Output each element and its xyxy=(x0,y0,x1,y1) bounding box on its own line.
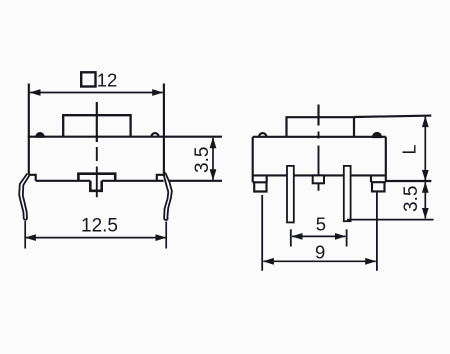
pin 2 (right view) xyxy=(344,166,351,221)
body bottom line (left view, extends to 3.5 dim) xyxy=(36,180,222,182)
extension tick right of 5 dimension xyxy=(346,229,348,246)
dimension line 9 xyxy=(263,260,375,262)
dimension line (square)12 xyxy=(30,92,163,94)
body top line (left view, extends to 3.5 dim) xyxy=(28,136,222,138)
left view: left extension / body left edge xyxy=(28,84,30,175)
boss stem (left view) xyxy=(90,181,101,191)
dimension line 5 xyxy=(292,235,345,237)
left view: right extension / body right edge xyxy=(163,84,165,174)
center line (left view) dashes xyxy=(96,147,98,197)
svg-text:3.5: 3.5 xyxy=(192,147,213,173)
extension line left of 9 dimension xyxy=(261,195,263,271)
body top line (right view) xyxy=(253,136,386,138)
right mounting foot (right view) xyxy=(371,175,386,191)
body left edge (right view) xyxy=(252,137,254,183)
center line (left view) solid upper xyxy=(96,102,98,142)
left bent leg (left view) xyxy=(19,174,29,220)
square symbol of (square)12 label xyxy=(81,72,95,86)
svg-text:9: 9 xyxy=(315,242,325,263)
bottom extension line (pin bottoms to 3.5 dim) xyxy=(347,219,434,221)
cap-top extension line to L dimension xyxy=(354,116,431,117)
left mounting foot (right view) xyxy=(253,176,267,192)
left rivet bump (left view, filled) xyxy=(36,133,43,137)
right bent leg (left view) xyxy=(164,173,172,220)
button cap (right view) xyxy=(287,117,355,137)
svg-text:12: 12 xyxy=(97,69,118,90)
extension tick left of 5 dimension xyxy=(290,229,292,246)
dimension line L xyxy=(424,117,426,181)
pin 1 (right view) xyxy=(287,166,294,223)
dimension line 3.5 (left view) xyxy=(212,138,214,180)
center line (right view) solid upper xyxy=(317,105,319,126)
body right edge (right view) xyxy=(385,137,387,182)
button cap (left view) xyxy=(63,115,130,137)
left rivet bump (right view, outline) xyxy=(259,133,266,137)
extension line right of 9 dimension xyxy=(376,192,378,271)
base step left (left view) xyxy=(29,175,36,181)
center tab (right view) xyxy=(313,175,324,183)
dimension line 3.5 (right view) xyxy=(424,182,426,218)
right rivet bump (right view, filled) xyxy=(373,133,381,137)
right rivet bump (left view, outline) xyxy=(151,133,158,137)
svg-text:5: 5 xyxy=(316,214,326,235)
svg-text:3.5: 3.5 xyxy=(401,186,422,212)
body bottom line (right view) xyxy=(253,174,386,176)
svg-text:L: L xyxy=(400,144,420,154)
extension line below right leg xyxy=(165,222,167,249)
center line (right view) dashes xyxy=(318,132,320,191)
mid extension line (body bottom to L/3.5 dims) xyxy=(386,180,432,182)
extension line below left leg xyxy=(24,221,26,249)
boss flange (left view) xyxy=(78,174,115,181)
base step right (left view) xyxy=(157,173,164,181)
svg-text:12.5: 12.5 xyxy=(81,216,118,237)
dimension line 12.5 xyxy=(25,237,166,239)
